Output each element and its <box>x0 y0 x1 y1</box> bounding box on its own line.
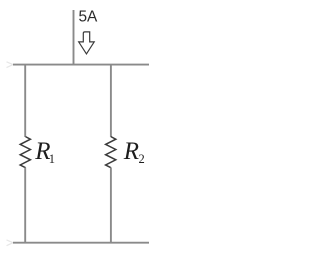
wire: left branch upper segment <box>24 65 26 137</box>
scan artifact at top rail left end <box>7 62 14 68</box>
svg-text:R1: R1 <box>34 138 55 166</box>
wire: right branch upper segment <box>110 65 112 137</box>
svg-text:5A: 5A <box>79 9 99 26</box>
scan artifact at bottom rail left end <box>7 240 14 246</box>
resistor R1 zigzag <box>20 137 30 168</box>
svg-text:R2: R2 <box>123 138 145 166</box>
current source arrow (hollow, pointing down) <box>79 32 95 54</box>
wire: left branch lower segment <box>24 168 26 243</box>
wire: right branch lower segment <box>110 168 112 243</box>
wire: bottom rail (node B) <box>13 242 149 244</box>
wire: current source lead (vertical, top center) <box>73 10 75 65</box>
wire: top rail (node A) <box>13 64 149 66</box>
resistor R2 zigzag <box>106 137 116 168</box>
